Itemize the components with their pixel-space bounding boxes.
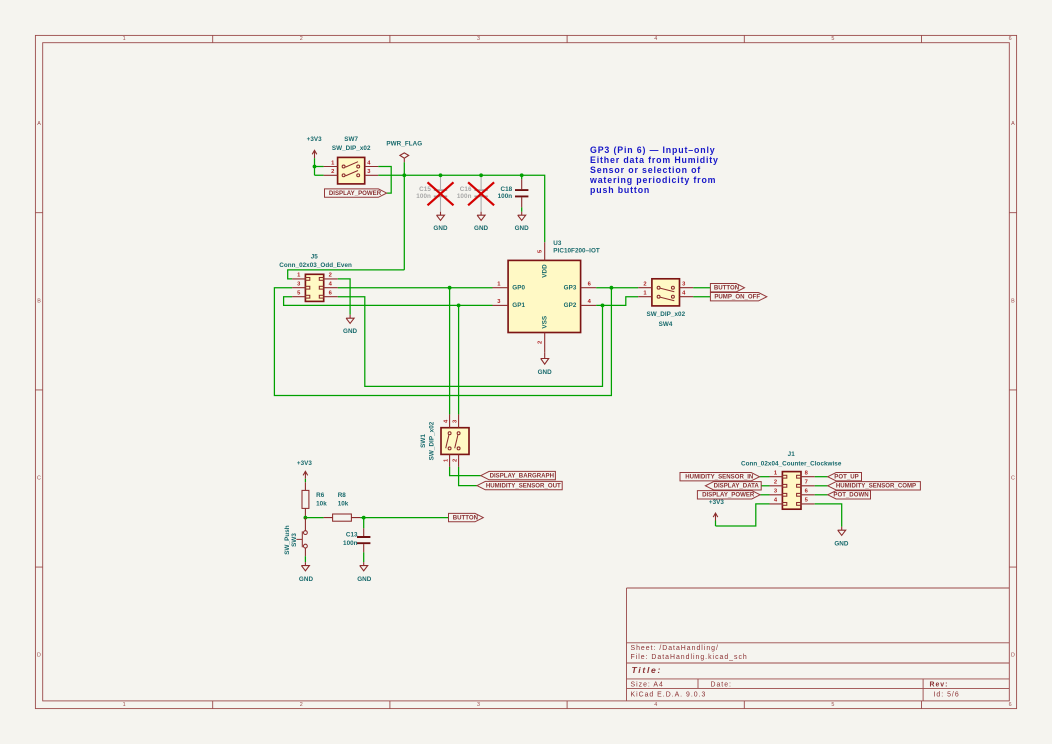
SW4 pins (638, 281, 693, 296)
wire J5 pin4 to GP0 (338, 287, 493, 289)
svg-text:Sensor or selection of: Sensor or selection of (590, 165, 701, 175)
SW4 reference and value (646, 311, 685, 328)
wire +3V3 to SW7 pins 1 and 2 (315, 158, 324, 175)
svg-text:6: 6 (1009, 36, 1012, 42)
svg-text:Rev:: Rev: (930, 681, 949, 688)
capacitor C13 (343, 518, 370, 553)
svg-text:HUMIDITY_SENSOR_IN: HUMIDITY_SENSOR_IN (685, 473, 753, 480)
wire J1 pin4 to +3V3 (716, 504, 770, 526)
connector J1 body (782, 472, 801, 510)
svg-text:A: A (1011, 121, 1015, 127)
junction C18 (520, 173, 524, 177)
junction GP1 to SW1 (457, 304, 461, 308)
ground below SW3 (299, 562, 314, 583)
DNP cross C15 (428, 182, 454, 205)
wire SW7 pin3 to VDD rail (378, 175, 544, 242)
svg-text:2: 2 (774, 479, 777, 485)
svg-text:Sheet: /DataHandling/: Sheet: /DataHandling/ (631, 645, 719, 652)
global label BUTTON bottom (449, 513, 484, 521)
svg-text:GND: GND (834, 540, 849, 547)
switch SW1 body (441, 428, 469, 455)
svg-text:PWR_FLAG: PWR_FLAG (386, 140, 422, 147)
U3 pin 5 VDD (538, 242, 549, 277)
power flag PWR_FLAG (386, 140, 422, 162)
junction C16 (479, 173, 483, 177)
svg-text:+3V3: +3V3 (709, 499, 725, 506)
svg-text:GND: GND (357, 576, 372, 583)
power symbol +3V3 mid left (297, 460, 313, 479)
svg-text:VSS: VSS (541, 316, 548, 329)
wire C13 to ground (363, 552, 365, 562)
wire SW1 pin2 to HUMIDITY_SENSOR_OUT (459, 467, 477, 486)
svg-text:U3: U3 (553, 240, 562, 247)
ground below C18 (515, 212, 530, 232)
SW1 reference and value (420, 421, 435, 460)
frame row labels right (1011, 121, 1015, 659)
capacitor C16 (DNP) (457, 175, 488, 212)
svg-text:4: 4 (654, 702, 657, 708)
wire SW4 pin3 to BUTTON label (693, 287, 710, 289)
note text GP3 (589, 145, 719, 195)
junction R6 SW3 node (304, 516, 308, 520)
title block (627, 588, 1010, 701)
ground below J5 (343, 315, 358, 335)
wire J1 pin8 to POT_UP (815, 476, 828, 478)
SW7 pins (324, 160, 379, 175)
svg-text:BUTTON: BUTTON (714, 284, 739, 291)
svg-text:C16: C16 (460, 186, 472, 193)
capacitor C15 (DNP) (416, 175, 447, 212)
svg-text:100n: 100n (343, 540, 358, 547)
svg-text:5: 5 (831, 36, 834, 42)
wire J5 pin1 to power rail (288, 270, 405, 279)
power symbol +3V3 at J1 (709, 499, 725, 526)
svg-text:SW1: SW1 (420, 434, 427, 448)
junction GP3 loop (610, 286, 614, 290)
wire SW7 pin4 to DISPLAY_POWER label (378, 167, 391, 194)
frame row labels left (37, 121, 41, 659)
svg-text:GND: GND (433, 225, 448, 232)
svg-text:POT_UP: POT_UP (834, 473, 858, 480)
svg-text:BUTTON: BUTTON (453, 514, 478, 521)
svg-text:2: 2 (452, 459, 458, 462)
svg-text:GND: GND (299, 576, 314, 583)
svg-text:R6: R6 (316, 492, 325, 499)
ground below C15 (433, 212, 448, 232)
global label HUMIDITY_SENSOR_COMP (828, 482, 921, 490)
SW1 pins (443, 414, 458, 467)
wire GP2 to SW4 pin1 (596, 297, 638, 306)
svg-text:B: B (1011, 298, 1015, 304)
svg-text:SW3: SW3 (291, 533, 298, 547)
svg-text:PIC10F200–IOT: PIC10F200–IOT (553, 248, 600, 255)
svg-text:HUMIDITY_SENSOR_OUT: HUMIDITY_SENSOR_OUT (486, 482, 561, 489)
global label POT_DOWN (828, 491, 871, 499)
svg-text:SW_DIP_x02: SW_DIP_x02 (428, 421, 435, 460)
svg-text:2: 2 (300, 702, 303, 708)
svg-text:Title:: Title: (632, 665, 663, 675)
wire GP1 node down to SW1 pin3 (458, 305, 460, 414)
U3 pin 4 GP2 (564, 299, 597, 309)
svg-text:Size: A4: Size: A4 (631, 681, 664, 688)
wire node to R8 (305, 517, 323, 519)
J5 reference and value (279, 254, 352, 270)
svg-text:4: 4 (654, 36, 657, 42)
U3 pin 1 GP0 (493, 281, 526, 291)
IC U3 body (508, 260, 580, 332)
SW7 reference and value (332, 136, 371, 152)
svg-text:3: 3 (477, 702, 480, 708)
svg-text:VDD: VDD (541, 264, 548, 278)
wire J1 pin7 to HUMIDITY_SENSOR_COMP (815, 485, 828, 487)
svg-text:SW7: SW7 (344, 136, 358, 143)
svg-text:Conn_02x04_Counter_Clockwise: Conn_02x04_Counter_Clockwise (741, 461, 842, 468)
junction GP2 loop (601, 304, 605, 308)
svg-text:GND: GND (538, 369, 553, 376)
svg-text:J1: J1 (788, 451, 796, 458)
global label PUMP_ON_OFF (710, 293, 766, 301)
svg-text:GND: GND (343, 328, 358, 335)
wire J5 pin6 loop to GP2 net (338, 297, 603, 387)
wire J5 pin5 to GP1 (284, 297, 493, 306)
ground below C13 (357, 562, 372, 583)
svg-text:watering periodicity from: watering periodicity from (589, 175, 716, 185)
global label POT_UP (828, 473, 862, 481)
global label DISPLAY_POWER (325, 189, 387, 197)
svg-text:1: 1 (123, 702, 126, 708)
svg-text:A: A (37, 121, 41, 127)
U3 reference and value (553, 240, 600, 255)
svg-text:GND: GND (515, 225, 530, 232)
connector J5 body (305, 274, 323, 301)
svg-text:2: 2 (331, 169, 334, 175)
U3 pin 3 GP1 (493, 299, 526, 309)
frame column labels top (123, 36, 1012, 42)
svg-text:100n: 100n (416, 193, 431, 200)
frame row ticks left (35, 213, 42, 567)
svg-text:GP3 (Pin 6) — Input–only: GP3 (Pin 6) — Input–only (590, 145, 715, 155)
svg-text:HUMIDITY_SENSOR_COMP: HUMIDITY_SENSOR_COMP (836, 483, 916, 490)
svg-text:SW_DIP_x02: SW_DIP_x02 (332, 145, 371, 152)
svg-text:POT_DOWN: POT_DOWN (833, 492, 868, 499)
svg-text:PUMP_ON_OFF: PUMP_ON_OFF (714, 293, 760, 300)
svg-text:SW4: SW4 (659, 321, 673, 328)
svg-text:D: D (37, 653, 41, 659)
J1 reference and value (741, 451, 842, 467)
junction C15 (439, 173, 443, 177)
wire J1 pin5 to ground (815, 504, 842, 527)
svg-text:GP0: GP0 (512, 285, 525, 292)
global label DISPLAY_DATA (705, 482, 761, 490)
svg-text:100n: 100n (498, 193, 513, 200)
svg-text:2: 2 (538, 341, 544, 344)
svg-text:10k: 10k (338, 501, 349, 508)
svg-text:100n: 100n (457, 193, 472, 200)
wire HUMIDITY_SENSOR_IN to J1 pin1 (760, 476, 770, 478)
svg-text:C: C (37, 476, 41, 482)
frame column ticks bottom (213, 701, 922, 709)
svg-text:6: 6 (1009, 702, 1012, 708)
junction R8 C13 node (362, 516, 366, 520)
ground below U3 (538, 353, 553, 376)
svg-text:1: 1 (123, 36, 126, 42)
global label DISPLAY_POWER at J1 (697, 491, 760, 499)
svg-text:C13: C13 (346, 532, 358, 539)
wire GP0 node down to SW1 pin4 (449, 288, 451, 415)
wire SW1 pin1 to DISPLAY_BARGRAPH (450, 467, 481, 476)
wire GP3 to SW4 pin2 (596, 287, 638, 289)
svg-text:R8: R8 (338, 492, 347, 499)
DNP cross C16 (468, 182, 494, 205)
wire J1 pin6 to POT_DOWN (815, 494, 828, 496)
svg-text:Either data from Humidity: Either data from Humidity (590, 155, 719, 165)
J1 pins (770, 470, 815, 504)
svg-text:+3V3: +3V3 (297, 460, 313, 467)
capacitor C18 (498, 175, 529, 212)
wire J5 pin3 loop to GP3 net (274, 288, 611, 396)
svg-text:+3V3: +3V3 (307, 136, 323, 143)
svg-text:GP1: GP1 (512, 302, 525, 309)
global label BUTTON right (710, 284, 744, 292)
svg-text:2: 2 (643, 281, 646, 287)
U3 pin 2 VSS (538, 316, 549, 353)
global label HUMIDITY_SENSOR_IN (680, 473, 760, 481)
junction GP0 to SW1 (448, 286, 452, 290)
svg-text:J5: J5 (311, 254, 319, 261)
svg-text:Id: 5/6: Id: 5/6 (934, 691, 960, 698)
svg-text:DISPLAY_DATA: DISPLAY_DATA (714, 483, 760, 490)
svg-text:GND: GND (474, 225, 489, 232)
wire DISPLAY_DATA to J1 pin2 (761, 485, 769, 487)
wire J5 pin2 to ground (338, 279, 350, 315)
switch SW3 SW_Push (284, 518, 307, 557)
junction at +3V3 node (313, 165, 317, 169)
svg-text:SW_DIP_x02: SW_DIP_x02 (646, 311, 685, 318)
svg-text:D: D (1011, 653, 1015, 659)
svg-text:3: 3 (477, 36, 480, 42)
switch SW7 body (338, 157, 365, 184)
svg-text:GP3: GP3 (564, 285, 577, 292)
frame column labels bottom (123, 702, 1012, 708)
frame column ticks top (213, 35, 922, 42)
svg-text:File: DataHandling.kicad_sch: File: DataHandling.kicad_sch (631, 654, 748, 661)
svg-text:B: B (37, 298, 41, 304)
ground below C16 (474, 212, 489, 232)
svg-text:10k: 10k (316, 501, 327, 508)
svg-text:push button: push button (590, 185, 650, 195)
resistor R8 (324, 492, 361, 521)
svg-text:C15: C15 (419, 186, 431, 193)
svg-text:2: 2 (300, 36, 303, 42)
frame row ticks right (1009, 213, 1016, 567)
J5 pins (292, 273, 338, 297)
svg-text:DISPLAY_POWER: DISPLAY_POWER (329, 190, 382, 197)
svg-text:KiCad E.D.A. 9.0.3: KiCad E.D.A. 9.0.3 (631, 691, 707, 698)
svg-text:2: 2 (329, 273, 332, 279)
svg-text:5: 5 (831, 702, 834, 708)
svg-text:SW_Push: SW_Push (284, 525, 291, 554)
global label DISPLAY_BARGRAPH (481, 471, 556, 479)
U3 pin 6 GP3 (564, 281, 597, 291)
svg-text:C18: C18 (500, 186, 512, 193)
svg-text:Conn_02x03_Odd_Even: Conn_02x03_Odd_Even (279, 262, 352, 269)
wire DISPLAY_POWER to J1 pin3 (760, 494, 769, 496)
svg-text:C: C (1011, 476, 1015, 482)
resistor R6 (302, 479, 327, 518)
wire SW4 pin4 to PUMP_ON_OFF label (693, 296, 710, 298)
svg-text:DISPLAY_POWER: DISPLAY_POWER (702, 492, 755, 499)
wire R8 to BUTTON label (360, 517, 448, 519)
svg-text:Date:: Date: (711, 681, 732, 688)
wire PWR_FLAG stem and down to J5 (403, 162, 405, 270)
svg-text:7: 7 (805, 479, 808, 485)
junction PWR_FLAG (402, 173, 406, 177)
global label HUMIDITY_SENSOR_OUT (477, 481, 562, 489)
ground below J1 (834, 527, 849, 548)
wire SW3 to ground (304, 556, 306, 562)
switch SW4 body (652, 279, 680, 306)
power symbol +3V3 top (307, 136, 323, 158)
svg-text:DISPLAY_BARGRAPH: DISPLAY_BARGRAPH (490, 472, 554, 479)
svg-text:GP2: GP2 (564, 302, 577, 309)
